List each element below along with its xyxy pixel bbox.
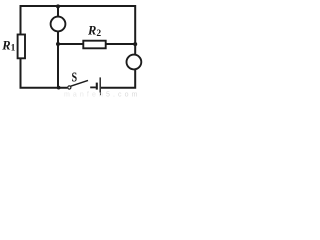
svg-text:S: S	[72, 69, 78, 85]
svg-text:manfen: manfen	[64, 92, 106, 99]
svg-text:5.com: 5.com	[106, 92, 141, 99]
